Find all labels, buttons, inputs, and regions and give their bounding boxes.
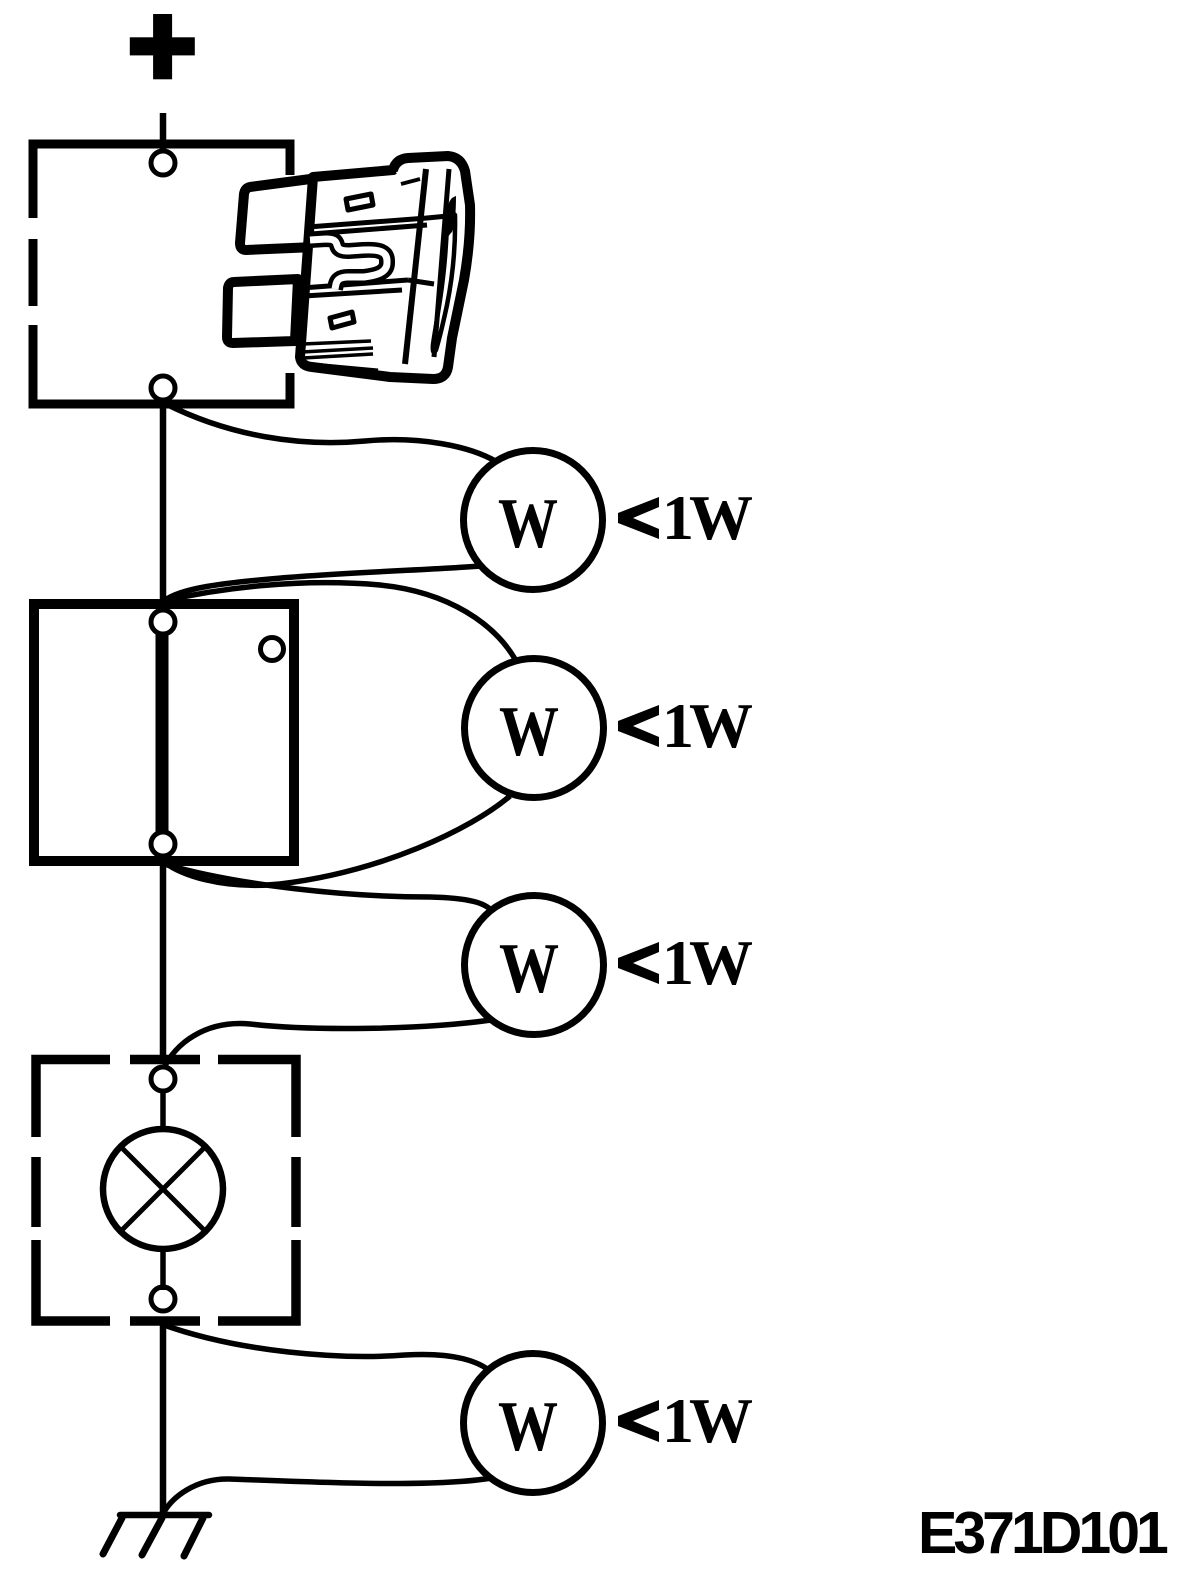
wire lamp box bottom to ground xyxy=(160,1318,167,1515)
wattmeter W1 xyxy=(464,451,603,590)
lamp box (dashed) xyxy=(36,1060,296,1322)
blade fuse illustration xyxy=(227,156,470,379)
svg-text:W: W xyxy=(498,485,558,563)
label &lt;1W xyxy=(618,690,752,761)
switch box top terminal xyxy=(151,610,175,634)
switch box indicator circle xyxy=(261,638,284,661)
svg-text:1W: 1W xyxy=(662,1385,752,1456)
wattmeter W3 lead from switch bottom xyxy=(164,864,492,911)
label &lt;1W xyxy=(618,482,752,553)
wattmeter W1 lead to switch box xyxy=(164,566,481,601)
switch box xyxy=(34,604,294,861)
wire lamp to terminal xyxy=(160,1243,166,1290)
wattmeter W3 lead to lamp box xyxy=(164,1020,491,1068)
fuse top notch xyxy=(396,169,420,183)
wire terminal to lamp xyxy=(160,1091,166,1135)
svg-text:W: W xyxy=(498,1388,558,1466)
lamp box top terminal xyxy=(151,1067,175,1091)
svg-text:W: W xyxy=(499,930,559,1008)
fuse lower blade terminal xyxy=(227,279,298,343)
wire from + to fuse box xyxy=(160,113,167,152)
switch bar xyxy=(156,622,169,844)
wattmeter W2 lead to switch bottom xyxy=(164,796,510,885)
lamp box bottom terminal xyxy=(151,1287,175,1311)
wattmeter W2 lead from switch top xyxy=(164,583,515,659)
fuse body shell xyxy=(300,156,470,379)
svg-text:W: W xyxy=(499,693,559,771)
wattmeter W2 xyxy=(465,659,604,798)
fuse box top terminal xyxy=(151,151,175,175)
label &lt;1W xyxy=(618,1385,752,1456)
fuse element (S strip) xyxy=(310,239,387,289)
fuse illustration white backing xyxy=(229,175,463,373)
fuse bottom skirt lines xyxy=(303,341,371,344)
label &lt;1W xyxy=(618,927,752,998)
fuse side slot xyxy=(443,196,456,250)
wattmeter W1 lead from fuse box xyxy=(166,404,497,462)
fuse lower vent hole xyxy=(330,312,354,328)
fuse lower divider xyxy=(302,280,408,288)
fuse front-right edge xyxy=(405,169,426,364)
battery positive + symbol xyxy=(130,14,195,79)
fuse box bottom terminal xyxy=(151,376,175,400)
wattmeter W4 xyxy=(464,1354,603,1493)
svg-text:1W: 1W xyxy=(662,690,752,761)
fuse upper blade terminal xyxy=(240,178,318,250)
wire fuse box bottom to switch box xyxy=(160,399,167,602)
svg-text:1W: 1W xyxy=(662,927,752,998)
wire switch box bottom to lamp box xyxy=(160,860,167,1058)
fuse side panel line xyxy=(434,169,449,357)
wattmeter W4 lead to ground xyxy=(164,1478,492,1512)
switch box bottom terminal xyxy=(151,832,175,856)
ground symbol xyxy=(103,1515,209,1556)
wattmeter W3 xyxy=(465,896,604,1035)
wattmeter W4 lead from lamp box xyxy=(164,1325,491,1372)
lamp symbol xyxy=(103,1129,223,1249)
fuse box (dashed) xyxy=(29,140,295,409)
svg-text:1W: 1W xyxy=(662,482,752,553)
fuse upper vent hole xyxy=(346,194,373,210)
fuse upper divider xyxy=(308,216,448,227)
svg-text:E371D101: E371D101 xyxy=(918,1500,1168,1566)
